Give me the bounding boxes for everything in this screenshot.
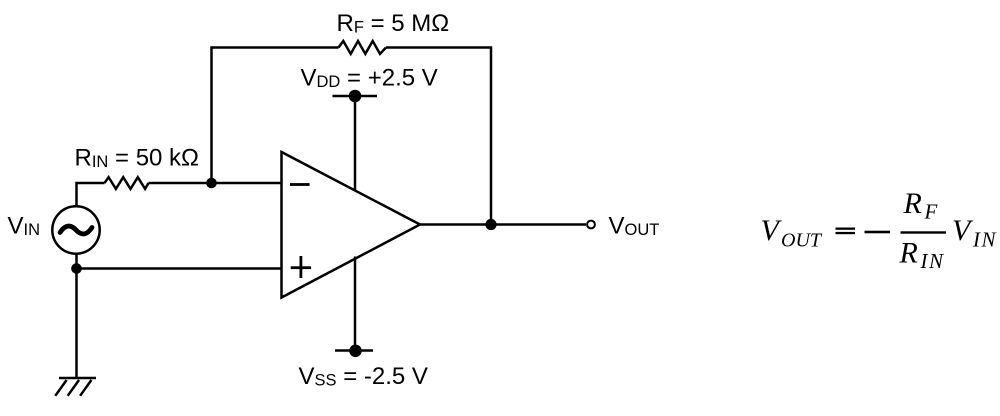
svg-text:R: R bbox=[903, 187, 922, 220]
node: feedback junction bbox=[206, 178, 217, 189]
svg-text:OUT: OUT bbox=[781, 230, 823, 252]
terminal VOUT open circle bbox=[587, 221, 595, 229]
wire: VDD to op-amp bbox=[354, 96, 357, 191]
svg-text:F: F bbox=[924, 200, 939, 224]
VDD supply node bar bbox=[333, 95, 378, 98]
resistor RF bbox=[339, 41, 387, 54]
node: output junction bbox=[485, 219, 496, 230]
op-amp U1 bbox=[282, 152, 421, 298]
wire: feedback left vertical bbox=[212, 48, 339, 184]
svg-text:R: R bbox=[899, 237, 918, 270]
source VIN circle bbox=[52, 206, 99, 253]
VSS supply node dot bbox=[349, 345, 362, 358]
VDD supply node dot bbox=[349, 90, 362, 103]
ground bbox=[55, 378, 96, 396]
op-amp minus sign bbox=[290, 183, 310, 186]
svg-text:IN: IN bbox=[920, 249, 945, 273]
wire: output bbox=[420, 223, 586, 226]
op-amp plus sign bbox=[291, 266, 311, 269]
wire: non-inverting input bbox=[77, 267, 282, 270]
node: VIN bottom junction bbox=[71, 263, 82, 274]
resistor RIN bbox=[105, 177, 149, 189]
wire: inverting input bbox=[149, 182, 282, 185]
svg-text:IN: IN bbox=[972, 228, 997, 252]
wire: feedback top right bbox=[386, 48, 491, 225]
VSS supply node bar bbox=[335, 349, 373, 352]
formula V_OUT = -RF/RIN V_IN bbox=[761, 187, 998, 273]
wire: VIN to ground bbox=[75, 255, 78, 379]
wire: VIN top bbox=[77, 183, 105, 207]
source VIN sine bbox=[60, 226, 92, 234]
svg-text:RF = 5 MΩ: RF = 5 MΩ bbox=[337, 10, 450, 37]
wire: VSS to op-amp bbox=[354, 257, 357, 352]
